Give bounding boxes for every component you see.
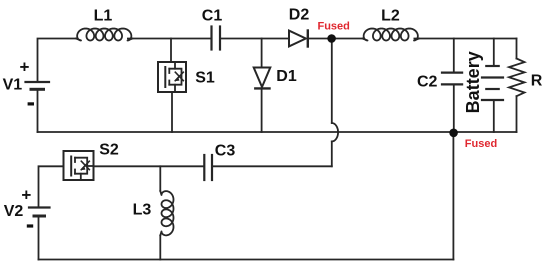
bottom wire circuit 2 <box>39 259 454 261</box>
svg-text:C3: C3 <box>215 143 236 160</box>
capacitor C2 branch wire top <box>453 39 455 73</box>
wire hop over bottom wire <box>332 123 338 141</box>
wire V2 bottom <box>38 216 40 259</box>
wire V2 top to S2 <box>39 166 64 207</box>
switch S2 icon <box>70 157 72 176</box>
diode D2 <box>289 31 306 47</box>
svg-text:D2: D2 <box>289 7 310 24</box>
inductor L3 <box>160 191 173 235</box>
capacitor C1 <box>212 27 221 50</box>
resistor R bottom stub <box>516 96 518 132</box>
svg-text:V2: V2 <box>4 203 24 220</box>
svg-text:+: + <box>20 58 30 77</box>
diode D1 branch wire bottom <box>261 88 263 132</box>
switch S1 branch wire top <box>170 39 172 63</box>
resistor R top stub <box>516 39 518 59</box>
wire node A to L2 <box>332 38 363 40</box>
inductor L3 branch wire top <box>159 166 161 191</box>
svg-text:L2: L2 <box>381 8 400 25</box>
switch S1 icon <box>164 67 166 87</box>
battery branch wire top <box>493 39 495 67</box>
battery branch wire bottom <box>493 100 495 132</box>
wire L1 to C1 <box>128 38 211 40</box>
node A link wire lower <box>331 141 333 166</box>
junction node B dot <box>449 129 458 138</box>
switch S1 branch wire bottom <box>171 92 173 132</box>
resistor R zigzag <box>509 59 525 97</box>
source V1 plates <box>26 81 50 83</box>
switch S1 box <box>158 62 186 92</box>
label V2 minus <box>27 224 33 227</box>
svg-text:L3: L3 <box>133 202 152 219</box>
svg-text:S1: S1 <box>195 69 215 86</box>
wire V1 top to L1 <box>38 39 77 83</box>
wire V1 bottom <box>37 90 39 133</box>
svg-text:D1: D1 <box>276 68 297 85</box>
capacitor C2 branch wire bottom <box>453 85 455 132</box>
wire D2 to node A <box>308 38 332 40</box>
wire C3 to link <box>212 165 331 167</box>
source V2 plates <box>29 206 50 208</box>
inductor L1 <box>76 29 133 41</box>
node A link wire upper <box>331 39 333 124</box>
bottom wire circuit 1 <box>38 131 517 133</box>
svg-text:V1: V1 <box>3 77 23 94</box>
battery cell plates <box>482 66 503 100</box>
capacitor C2 <box>442 73 462 85</box>
svg-text:Fused: Fused <box>465 138 497 150</box>
svg-text:C1: C1 <box>202 8 223 25</box>
wire C1 to D2 <box>221 38 290 40</box>
svg-text:L1: L1 <box>94 8 113 25</box>
svg-text:R: R <box>531 73 543 90</box>
label V1 minus <box>28 102 34 105</box>
junction node A dot <box>327 34 336 43</box>
svg-text:C2: C2 <box>417 74 438 91</box>
diode D1 branch wire top <box>261 39 263 68</box>
wire L2 to R corner <box>414 38 516 40</box>
inductor L3 branch wire bottom <box>159 235 161 259</box>
svg-text:Fused: Fused <box>317 21 349 33</box>
svg-text:S2: S2 <box>99 141 119 158</box>
wire S2 to C3 <box>94 165 205 167</box>
diode D1 <box>254 68 271 88</box>
link wire node B down <box>452 133 454 260</box>
svg-text:+: + <box>21 185 31 204</box>
svg-text:Battery: Battery <box>463 51 483 113</box>
switch S2 box <box>64 151 94 180</box>
inductor L2 <box>363 29 420 41</box>
capacitor C3 <box>204 155 212 180</box>
